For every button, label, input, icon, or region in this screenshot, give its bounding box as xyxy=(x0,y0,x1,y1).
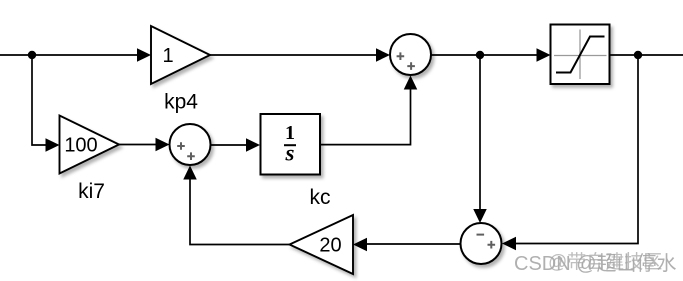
node branch junction left xyxy=(28,51,36,59)
arrowhead left into gain 20 xyxy=(353,238,367,251)
arrowhead down into sum S3 top port xyxy=(473,209,487,223)
sum S3 (circle) xyxy=(461,223,502,264)
sign plus at sum S2 bottom port xyxy=(407,62,415,70)
arrowhead into sum S1 left port xyxy=(156,138,170,151)
saturation block xyxy=(551,25,610,85)
arrowhead into saturation block xyxy=(537,48,551,61)
arrowhead into sum S2 left port xyxy=(376,48,390,61)
svg-text:ki7: ki7 xyxy=(78,180,105,203)
sign plus at sum S1 left port xyxy=(177,142,185,150)
wire middle junction down to sum S3 top port xyxy=(479,55,481,210)
arrowhead up into sum S1 bottom port xyxy=(183,166,197,180)
wire saturation block to output xyxy=(610,54,683,56)
sign plus at sum S3 right port xyxy=(488,241,496,249)
wire integrator kc to sum S2 bottom port xyxy=(320,89,411,145)
node branch junction middle xyxy=(476,51,484,59)
arrowhead into gain kp4 xyxy=(137,48,151,61)
sum S1 (circle) xyxy=(170,124,211,165)
sign plus at sum S2 left port xyxy=(397,52,405,60)
node branch junction right xyxy=(634,51,642,59)
svg-text:1: 1 xyxy=(162,45,173,67)
wire gain kp4 to sum S2 xyxy=(210,54,377,56)
arrowhead up into sum S2 bottom port xyxy=(404,76,418,90)
value label 1/s of integrator kc xyxy=(284,122,296,166)
sign minus at sum S3 top port xyxy=(477,234,485,236)
wire junction down to gain ki7 xyxy=(32,55,46,145)
svg-text:20: 20 xyxy=(319,235,341,257)
wire sum S1 to integrator kc xyxy=(211,144,247,146)
gain ki7 (triangle) xyxy=(60,116,120,174)
svg-text:kc: kc xyxy=(310,186,331,209)
integrator kc (1/s block) xyxy=(261,114,321,175)
sign plus at sum S1 bottom port xyxy=(187,152,195,160)
wire sum S3 to gain 20 xyxy=(367,243,461,245)
watermark CSDN text xyxy=(514,251,677,275)
sum S2 (circle) xyxy=(390,34,431,75)
svg-text:@带自建技区: @带自建技区 xyxy=(548,251,662,273)
svg-text:s: s xyxy=(285,141,295,166)
wire sum S2 to saturation block xyxy=(431,54,537,56)
wire input to gain kp4 xyxy=(0,54,140,56)
gain kp4 (triangle) xyxy=(151,26,210,84)
arrowhead left into sum S3 right port xyxy=(502,237,516,250)
svg-text:kp4: kp4 xyxy=(164,91,198,114)
wire right junction down and left to sum S3 right port xyxy=(516,55,638,244)
wire gain ki7 to sum S1 xyxy=(119,144,156,146)
svg-text:100: 100 xyxy=(64,135,97,157)
arrowhead into integrator kc xyxy=(246,138,260,151)
arrowhead into gain ki7 xyxy=(46,138,60,151)
wire gain 20 to sum S1 bottom port xyxy=(190,179,290,245)
gain 20 (left-pointing triangle) xyxy=(290,215,354,274)
